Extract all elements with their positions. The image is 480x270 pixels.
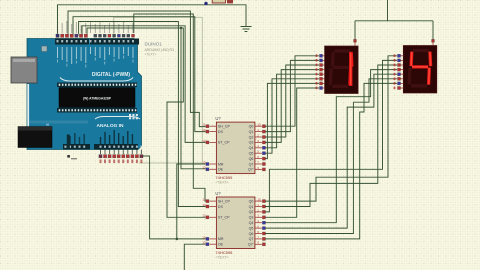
svg-text:ARDUINO UNO R3: ARDUINO UNO R3 [145, 48, 175, 52]
svg-text:11: 11 [202, 123, 205, 127]
svg-text:74HC595: 74HC595 [215, 250, 233, 255]
svg-text:Q7': Q7' [248, 168, 254, 172]
svg-text:ST_CP: ST_CP [218, 141, 230, 145]
svg-text:Q5: Q5 [249, 152, 254, 156]
svg-text:Q0: Q0 [249, 125, 254, 129]
svg-text:Q7': Q7' [248, 243, 254, 247]
svg-text:Q6: Q6 [249, 232, 254, 236]
svg-text:11: 11 [202, 198, 205, 202]
svg-text:10: 10 [202, 235, 206, 239]
svg-text:Q2: Q2 [249, 210, 254, 214]
svg-text:Q1: Q1 [249, 130, 254, 134]
svg-text:MR: MR [218, 237, 224, 241]
svg-text:OE: OE [218, 243, 224, 247]
svg-text:Q3: Q3 [249, 141, 254, 145]
svg-text:ST_CP: ST_CP [218, 216, 230, 220]
svg-text:Q5: Q5 [249, 226, 254, 230]
svg-text:Q4: Q4 [249, 146, 254, 150]
svg-text:Q6: Q6 [249, 157, 254, 161]
svg-text:U?: U? [215, 191, 221, 196]
svg-text:<TEXT>: <TEXT> [215, 181, 228, 185]
svg-text:Q7: Q7 [249, 237, 254, 241]
svg-text:MR: MR [218, 162, 224, 166]
svg-text:10: 10 [202, 160, 206, 164]
svg-text:15: 15 [257, 123, 261, 127]
svg-text:U?: U? [215, 116, 221, 121]
svg-text:SH_CP: SH_CP [218, 199, 231, 203]
svg-text:74HC595: 74HC595 [215, 175, 233, 180]
svg-text:DS: DS [218, 205, 224, 209]
svg-text:Q2: Q2 [249, 135, 254, 139]
svg-text:Q0: Q0 [249, 199, 254, 203]
svg-text:12: 12 [202, 139, 206, 143]
svg-text:∞: ∞ [46, 122, 49, 127]
svg-text:13: 13 [202, 166, 206, 170]
svg-text:Q7: Q7 [249, 162, 254, 166]
svg-text:Q4: Q4 [249, 221, 254, 225]
svg-text:DIGITAL (-PWM): DIGITAL (-PWM) [92, 72, 130, 78]
svg-text:14: 14 [202, 203, 206, 207]
svg-text:13: 13 [202, 241, 206, 245]
svg-text:SH_CP: SH_CP [218, 125, 231, 129]
svg-text:Q1: Q1 [249, 205, 254, 209]
svg-text:DS: DS [218, 130, 224, 134]
svg-text:Q3: Q3 [249, 216, 254, 220]
svg-text:15: 15 [257, 198, 261, 202]
svg-text:DUINO1: DUINO1 [145, 42, 163, 47]
svg-text:ANALOG IN: ANALOG IN [97, 123, 124, 129]
svg-text:<TEXT>: <TEXT> [215, 256, 228, 260]
svg-text:12: 12 [202, 214, 206, 218]
svg-text:OE: OE [218, 168, 224, 172]
svg-text:(W) ATMEGA328P: (W) ATMEGA328P [83, 96, 112, 100]
svg-text:14: 14 [202, 128, 206, 132]
svg-text:<TEXT>: <TEXT> [145, 52, 157, 56]
